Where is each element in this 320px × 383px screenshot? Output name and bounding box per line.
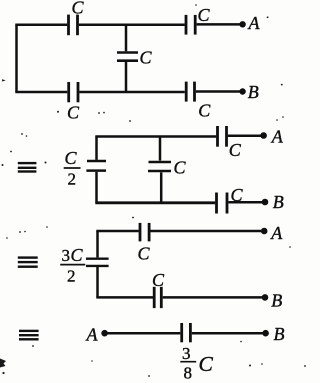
node A terminal dot (circuit3): [261, 228, 268, 235]
wire: circuit1 top right segment to A: [197, 23, 242, 26]
svg-text:3: 3: [62, 246, 71, 265]
svg-text:B: B: [273, 192, 284, 212]
equivalence symbol (circuit2): [18, 162, 37, 173]
wire: circuit3 bottom wire to B: [163, 296, 262, 299]
svg-text:C: C: [65, 148, 78, 168]
svg-text:A: A: [271, 127, 284, 147]
svg-text:A: A: [270, 223, 283, 243]
svg-text:B: B: [248, 82, 259, 102]
wire: circuit1 top left segment: [15, 24, 67, 27]
node B terminal dot (circuit3): [262, 294, 269, 301]
wire: circuit1 middle branch lower: [125, 62, 128, 92]
capacitor C top-right (circuit2): [218, 126, 227, 147]
svg-text:3: 3: [182, 344, 191, 363]
capacitor C middle (circuit1): [117, 53, 138, 61]
svg-text:C: C: [138, 244, 151, 264]
wire: circuit2 middle branch lower: [160, 172, 163, 202]
wire: circuit3 top wire to A: [151, 230, 262, 233]
capacitor C top (circuit3): [140, 223, 149, 242]
wire: circuit2 middle branch upper: [159, 137, 162, 161]
wire: circuit3 top wire left: [96, 230, 138, 233]
svg-text:C: C: [67, 103, 80, 123]
svg-text:C: C: [72, 0, 85, 18]
svg-text:A: A: [86, 325, 99, 345]
svg-text:C: C: [152, 270, 165, 290]
wire: circuit3 left vertical lower: [96, 267, 99, 297]
svg-text:C: C: [140, 48, 153, 68]
wire: circuit1 bottom middle segment: [79, 91, 184, 94]
wire: circuit3 left vertical upper: [96, 231, 99, 257]
capacitor C middle (circuit2): [148, 162, 171, 171]
wire: circuit2 left vertical upper: [95, 137, 98, 160]
wire: circuit2 left vertical lower: [95, 172, 98, 203]
capacitor C bottom-right (circuit2): [217, 193, 228, 214]
capacitor C top-right (circuit1): [186, 15, 195, 35]
label C/2 fraction (circuit2 left capacitor value): [64, 148, 81, 189]
equivalence symbol (circuit4): [19, 330, 39, 341]
capacitor 3/8 C (circuit4): [182, 323, 191, 342]
label 3/8 C fraction (circuit4 capacitor value): [180, 344, 213, 383]
svg-text:C: C: [229, 140, 242, 160]
capacitor C bottom (circuit3): [154, 287, 161, 308]
svg-text:B: B: [271, 290, 282, 310]
node A terminal dot (circuit2): [260, 132, 267, 139]
wire: circuit1 middle branch upper: [125, 25, 128, 52]
svg-text:C: C: [71, 245, 84, 265]
svg-text:B: B: [274, 324, 285, 344]
node A terminal dot (circuit4): [101, 330, 108, 337]
capacitor C/2 (circuit2 left): [86, 161, 106, 171]
wire: circuit1 bottom left segment: [15, 91, 67, 94]
wire: circuit1 left vertical: [15, 25, 18, 92]
capacitor C bottom-right (circuit1): [186, 82, 194, 102]
wire: circuit2 bottom wire to B: [228, 201, 262, 204]
svg-text:C: C: [174, 158, 187, 178]
wire: circuit1 top middle segment: [79, 24, 185, 27]
svg-text:2: 2: [67, 267, 76, 286]
svg-text:C: C: [231, 185, 244, 205]
capacitor 3C/2 (circuit3 left): [86, 259, 109, 266]
wire: circuit4 wire A side: [108, 332, 181, 335]
wire: circuit3 bottom wire left: [96, 296, 153, 299]
capacitor C bottom-left (circuit1): [69, 82, 78, 102]
svg-text:A: A: [248, 13, 261, 33]
wire: circuit2 bottom wire: [95, 201, 215, 204]
node B terminal dot (circuit4): [262, 330, 269, 337]
label 3C/2 fraction (circuit3 left capacitor value): [60, 245, 85, 286]
svg-text:8: 8: [184, 364, 193, 383]
wire: circuit2 top wire: [95, 135, 216, 138]
wire: circuit4 wire B side: [192, 332, 263, 335]
wire: circuit2 top wire to A: [228, 134, 261, 137]
svg-text:2: 2: [68, 170, 77, 189]
svg-text:C: C: [198, 5, 211, 25]
node B terminal dot (circuit1): [239, 88, 245, 94]
capacitor C top-left (circuit1): [69, 15, 78, 36]
svg-text:C: C: [199, 352, 214, 376]
node B terminal dot (circuit2): [262, 199, 269, 206]
equivalence symbol (circuit3): [18, 256, 38, 268]
wire: circuit1 bottom right segment to B: [196, 90, 242, 93]
node A terminal dot (circuit1): [239, 21, 245, 27]
svg-text:C: C: [198, 101, 211, 121]
